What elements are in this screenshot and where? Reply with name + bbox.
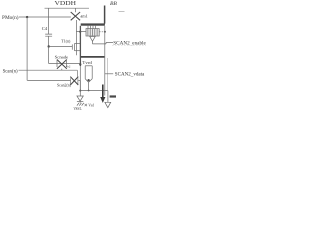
transistor X2 (crossed) [70, 77, 78, 85]
transistor X1 (crossed) [57, 60, 67, 69]
wire to SCAN2_enable [93, 43, 114, 44]
faint dash near BB [119, 11, 125, 13]
wire triangle down [92, 41, 94, 44]
wire node down to X1 [48, 47, 50, 64]
wire X2 down [79, 80, 81, 90]
tiny mark x [85, 104, 87, 106]
svg-text:Scan(n): Scan(n) [3, 68, 18, 75]
wire VDDH top rail [45, 7, 90, 9]
ground chassis left [77, 103, 84, 106]
wire X2 right dash [78, 79, 80, 81]
svg-text:Tvrd: Tvrd [82, 60, 92, 65]
ghost second rail [107, 58, 109, 91]
node dot at box bottom left [79, 31, 81, 33]
wire PM input horizontal [19, 16, 71, 18]
ground triangle right [105, 102, 111, 107]
dark dash label [110, 95, 116, 97]
svg-text:tm1: tm1 [81, 13, 88, 18]
svg-text:VDDH: VDDH [55, 1, 77, 7]
wire C4 down to node [48, 36, 50, 46]
wire left vertical from PM node [26, 17, 28, 80]
X2 side bars [71, 78, 78, 84]
node dot on right rail [104, 31, 106, 33]
capacitor C4 [45, 34, 52, 36]
wire to ground right [107, 91, 109, 103]
wire stub to SCAN2_vdata [105, 73, 113, 75]
wire main center vertical [79, 64, 81, 91]
node junction dot [48, 45, 50, 47]
box hatching [88, 29, 97, 36]
wire Scan horizontal [19, 69, 78, 71]
wire thick bus to rail [81, 56, 105, 58]
node dot Tvrd [87, 79, 89, 81]
wire jog to box node [76, 31, 86, 33]
wire BB vertical thick [104, 6, 106, 24]
wire thick top bar [81, 23, 105, 25]
component Tvrd top cap [85, 65, 92, 67]
diode D1 [79, 91, 81, 96]
transistor M1 gate bar [71, 44, 73, 49]
component Tvrd pillar right [91, 66, 93, 79]
component Tvrd converge [85, 79, 92, 82]
svg-text:Scnade: Scnade [55, 56, 69, 60]
wire stub rail to X0 [75, 8, 77, 12]
wire bottom horizontal [80, 90, 108, 92]
ghost dots row [112, 44, 146, 46]
wire X1 bottom down [61, 69, 63, 71]
transistor X0 (crossed) [71, 12, 80, 20]
svg-text:PMo(n): PMo(n) [2, 14, 19, 21]
svg-text:C4: C4 [42, 26, 48, 31]
wire thick vertical overlay [79, 26, 81, 66]
node dot X1 to center vertical [79, 63, 81, 65]
svg-text:tb2: tb2 [67, 64, 71, 68]
svg-text:Vsd: Vsd [88, 103, 94, 107]
transistor M1 drain stub [75, 43, 81, 45]
wire X1 axis [49, 63, 81, 65]
node dot Tvrd bottom [88, 90, 90, 92]
X1 end ticks [57, 60, 66, 67]
wire Tvrd down [88, 82, 90, 90]
box teeth connectors [88, 26, 96, 29]
transistor box U1 [86, 29, 99, 36]
dashed wire from box to rail [99, 31, 104, 33]
wire from rail down to C4 [48, 8, 50, 34]
svg-text:Scan2(n): Scan2(n) [57, 82, 71, 87]
svg-text:T1(n): T1(n) [61, 39, 71, 44]
transistor M1 source stub [75, 50, 81, 52]
node dot on PM wire [26, 16, 28, 18]
transistor M1 channel [74, 43, 76, 51]
wire Scan drop to X2 [76, 70, 78, 76]
wire bottom corner from left vertical [27, 79, 70, 81]
svg-text:BB: BB [110, 1, 117, 7]
component Tvrd pillar left [84, 66, 86, 79]
wire gate from node [49, 46, 73, 48]
svg-text:VSS/L: VSS/L [74, 106, 83, 111]
wire right rail [104, 26, 106, 96]
current arrow bold [102, 85, 104, 98]
wire X0 drain down [75, 20, 77, 55]
svg-text:SCAN2_vdata: SCAN2_vdata [115, 72, 145, 78]
node dot bottom left [79, 90, 81, 92]
triangle below box [90, 36, 96, 41]
